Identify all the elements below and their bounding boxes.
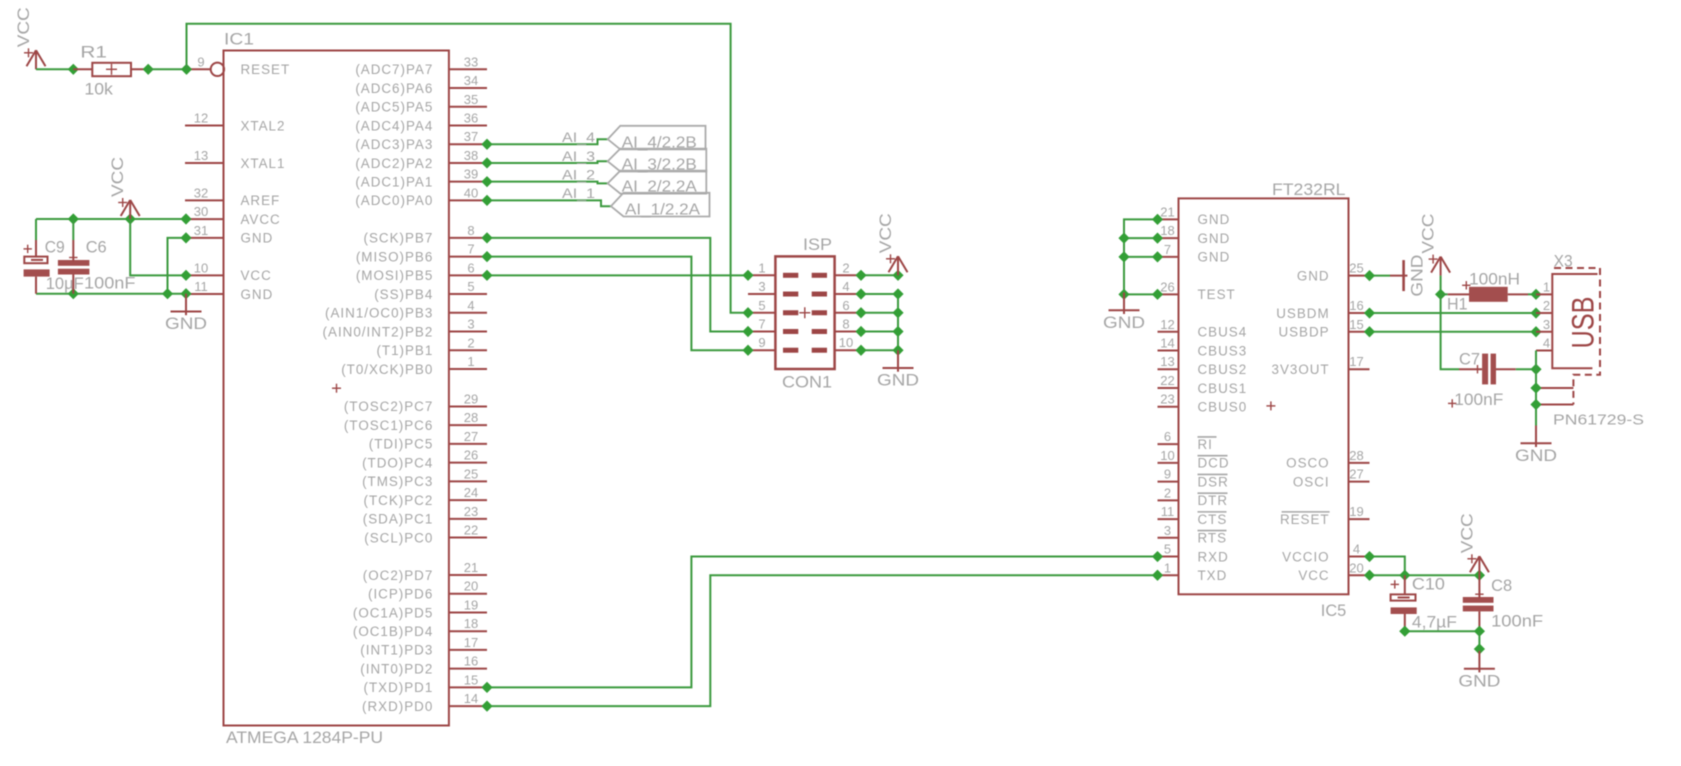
svg-text:10k: 10k	[84, 80, 113, 99]
junction	[1152, 233, 1163, 244]
svg-text:3: 3	[1543, 317, 1550, 332]
IC1 pin 12 XTAL2	[185, 110, 285, 133]
wire net AI_4	[487, 139, 608, 144]
svg-text:(TDO)PC4: (TDO)PC4	[362, 455, 433, 470]
IC1 pin 23 (SDA)PC1	[363, 504, 487, 527]
svg-text:26: 26	[1160, 279, 1174, 294]
ISP pin 6	[812, 298, 861, 313]
wire net AI_1	[487, 200, 611, 206]
svg-text:IC1: IC1	[224, 30, 254, 49]
wire C7 to gnd rail	[1516, 368, 1536, 370]
junction	[481, 176, 492, 187]
IC5 pin 17 3V3OUT	[1272, 354, 1370, 377]
svg-text:(TXD)PD1: (TXD)PD1	[364, 680, 434, 695]
connector CON1 ISP body	[775, 256, 834, 369]
svg-text:7: 7	[1164, 242, 1171, 257]
junction	[855, 288, 866, 299]
svg-text:(ADC6)PA6: (ADC6)PA6	[355, 81, 433, 96]
IC1 pin 36 (ADC4)PA4	[355, 110, 487, 133]
junction	[125, 213, 136, 224]
svg-text:(OC2)PD7: (OC2)PD7	[363, 568, 434, 583]
svg-text:16: 16	[464, 654, 478, 669]
svg-text:GND: GND	[1198, 231, 1231, 246]
svg-text:R1: R1	[80, 43, 107, 62]
svg-text:CBUS1: CBUS1	[1198, 381, 1248, 396]
svg-text:(SCL)PC0: (SCL)PC0	[364, 530, 433, 545]
junction node RESET	[181, 64, 192, 75]
IC5 pin 28 OSCO	[1286, 448, 1369, 471]
wire VCC rail down to C7	[1441, 294, 1459, 369]
IC1 pin 21 (OC2)PD7	[363, 560, 487, 583]
wire ISP6	[861, 312, 898, 314]
junction	[1364, 326, 1375, 337]
junction	[481, 682, 492, 693]
svg-text:H1: H1	[1447, 295, 1468, 314]
ISP pin 8	[812, 316, 861, 331]
svg-text:35: 35	[464, 92, 478, 107]
X3 pin 3	[1536, 317, 1552, 332]
IC5 pin 11 CTS	[1158, 504, 1228, 527]
svg-text:RXD: RXD	[1198, 549, 1229, 564]
IC5 pin 16 USBDM	[1276, 298, 1369, 321]
svg-text:2: 2	[1543, 298, 1550, 313]
svg-text:IC5: IC5	[1321, 601, 1347, 620]
svg-text:20: 20	[464, 579, 478, 594]
IC1 pin 26 (TDO)PC4	[362, 448, 487, 471]
svg-text:(ADC5)PA5: (ADC5)PA5	[355, 100, 433, 115]
IC1 pin 39 (ADC1)PA1	[355, 167, 487, 190]
IC5 pin 6 RI	[1158, 429, 1217, 452]
svg-text:6: 6	[1164, 429, 1171, 444]
X3 pin 1	[1536, 279, 1552, 294]
junction	[742, 345, 753, 356]
svg-text:(SDA)PC1: (SDA)PC1	[363, 512, 434, 527]
C9 polarity +	[24, 248, 32, 250]
wire IC5 gnd rail	[1124, 219, 1158, 292]
svg-text:(RXD)PD0: (RXD)PD0	[362, 699, 433, 714]
IC1 pin 2 (T1)PB1	[376, 335, 487, 358]
svg-text:VCC: VCC	[241, 268, 272, 283]
ground GND (USB)	[1515, 426, 1557, 466]
svg-text:DSR: DSR	[1198, 474, 1229, 489]
svg-text:19: 19	[1349, 504, 1363, 519]
svg-text:33: 33	[464, 54, 478, 69]
IC5 pin 21 GND	[1158, 204, 1231, 227]
svg-text:27: 27	[464, 429, 478, 444]
junction	[855, 270, 866, 281]
junction	[1530, 289, 1541, 300]
svg-text:5: 5	[758, 298, 765, 313]
svg-text:6: 6	[467, 260, 474, 275]
svg-text:VCC: VCC	[1458, 513, 1476, 553]
X3 shield pin S1	[1536, 387, 1573, 389]
svg-text:GND: GND	[1515, 447, 1557, 465]
svg-text:(OC1A)PD5: (OC1A)PD5	[353, 605, 433, 620]
svg-text:3V3OUT: 3V3OUT	[1272, 362, 1330, 377]
svg-text:VCC: VCC	[15, 7, 33, 47]
junction	[1435, 289, 1446, 300]
svg-text:(AIN1/OC0)PB3: (AIN1/OC0)PB3	[325, 306, 433, 321]
svg-text:(TOSC1)PC6: (TOSC1)PC6	[344, 418, 433, 433]
svg-text:DCD: DCD	[1198, 456, 1230, 471]
wire VCC to R1	[36, 68, 73, 70]
IC1 pin 14 (RXD)PD0	[362, 691, 487, 714]
junction	[855, 345, 866, 356]
IC5 pin 1 TXD	[1158, 560, 1228, 583]
junction	[481, 232, 492, 243]
wire RXD to PD1	[487, 557, 1158, 688]
wire gnd 18	[1124, 237, 1158, 239]
svg-text:100nF: 100nF	[84, 273, 136, 292]
X3 shield pin S2	[1536, 404, 1573, 406]
junction	[855, 326, 866, 337]
IC5 pin 13 CBUS2	[1158, 354, 1248, 377]
svg-text:C9: C9	[45, 238, 65, 257]
ISP pin 7	[748, 316, 798, 331]
X3 pin 4	[1536, 336, 1552, 351]
svg-text:(ADC2)PA2: (ADC2)PA2	[355, 156, 433, 171]
wire MOSI to ISP1	[487, 274, 748, 276]
net flag AI_2	[608, 171, 707, 194]
capacitor C6	[58, 219, 90, 294]
capacitor C7	[1459, 354, 1516, 385]
svg-text:1: 1	[1543, 279, 1550, 294]
junction	[892, 288, 903, 299]
svg-text:XTAL1: XTAL1	[241, 156, 286, 171]
svg-text:AI_4: AI_4	[562, 129, 595, 145]
svg-text:CTS: CTS	[1198, 512, 1228, 527]
IC1 pin 30 AVCC	[185, 204, 281, 227]
ground GND (ISP)	[877, 350, 919, 390]
svg-text:(TDI)PC5: (TDI)PC5	[369, 437, 434, 452]
svg-text:9: 9	[1164, 467, 1171, 482]
IC1 pin 25 (TMS)PC3	[362, 466, 487, 489]
svg-text:(OC1B)PD4: (OC1B)PD4	[353, 624, 433, 639]
svg-text:GND: GND	[241, 231, 274, 246]
svg-text:11: 11	[194, 279, 208, 294]
IC1 pin 20 (ICP)PD6	[368, 579, 487, 602]
svg-text:(ADC7)PA7: (ADC7)PA7	[355, 62, 433, 77]
svg-text:32: 32	[194, 185, 208, 200]
svg-text:TEST: TEST	[1198, 287, 1236, 302]
svg-text:1: 1	[1164, 560, 1171, 575]
wire C10-C8 gnd	[1405, 630, 1480, 632]
IC1 pin 18 (OC1B)PD4	[353, 616, 487, 639]
wire net AI_2	[487, 182, 608, 184]
junction	[162, 288, 173, 299]
ground GND (C8)	[1458, 651, 1500, 691]
svg-text:10: 10	[839, 335, 853, 350]
svg-text:40: 40	[464, 185, 478, 200]
IC1 pin 19 (OC1A)PD5	[353, 597, 487, 620]
IC1 pin 5 (SS)PB4	[374, 279, 487, 302]
ISP pin 3	[748, 279, 798, 294]
svg-text:(INT0)PD2: (INT0)PD2	[360, 661, 433, 676]
net flag AI_1	[611, 193, 710, 217]
IC5 pin 25 GND	[1297, 261, 1370, 284]
svg-text:(TMS)PC3: (TMS)PC3	[362, 474, 433, 489]
IC5 pin 14 CBUS3	[1158, 336, 1248, 359]
svg-text:4: 4	[842, 279, 849, 294]
IC1 pin 3 (AIN0/INT2)PB2	[323, 317, 487, 340]
svg-text:10µF: 10µF	[46, 274, 84, 293]
power VCC (AVCC)	[109, 157, 140, 219]
IC5 pin 10 DCD	[1158, 448, 1230, 471]
svg-text:(T1)PB1: (T1)PB1	[376, 343, 433, 358]
ISP pin 1	[748, 260, 798, 275]
junction	[1152, 251, 1163, 262]
X3 pin 2	[1536, 298, 1552, 313]
IC5 pin 26 TEST	[1158, 279, 1236, 302]
svg-text:XTAL2: XTAL2	[241, 118, 286, 133]
svg-text:16: 16	[1349, 298, 1363, 313]
IC1 pin 29 (TOSC2)PC7	[344, 391, 487, 414]
svg-text:20: 20	[1349, 560, 1363, 575]
IC1 pin 16 (INT0)PD2	[360, 654, 487, 677]
junction	[1152, 551, 1163, 562]
svg-text:OSCI: OSCI	[1293, 474, 1330, 489]
wire USB gnd vertical	[1535, 351, 1537, 426]
IC1 origin cross	[332, 387, 341, 389]
svg-text:37: 37	[464, 129, 478, 144]
capacitor C8	[1463, 575, 1494, 631]
svg-text:9: 9	[197, 54, 204, 69]
svg-text:(ADC1)PA1: (ADC1)PA1	[355, 174, 433, 189]
junction	[742, 307, 753, 318]
svg-text:11: 11	[1161, 504, 1175, 519]
svg-text:13: 13	[194, 148, 208, 163]
junction	[1530, 364, 1541, 375]
svg-text:USB: USB	[1565, 297, 1601, 349]
IC1 pin 4 (AIN1/OC0)PB3	[325, 298, 487, 321]
wire GND pin31 jog	[168, 238, 187, 294]
power VCC (reset pull-up)	[15, 7, 46, 69]
svg-text:(ADC4)PA4: (ADC4)PA4	[355, 118, 433, 133]
junction	[1474, 643, 1485, 654]
ISP origin cross	[799, 312, 810, 314]
IC1 pin 10 VCC	[185, 260, 272, 283]
junction	[892, 345, 903, 356]
svg-text:VCC: VCC	[1420, 214, 1438, 254]
wire GND bottom net	[36, 293, 186, 295]
junction	[481, 139, 492, 150]
svg-text:AI_3: AI_3	[562, 148, 595, 164]
svg-text:3: 3	[758, 279, 765, 294]
svg-text:19: 19	[464, 597, 478, 612]
junction	[742, 326, 753, 337]
svg-text:ISP: ISP	[803, 235, 832, 254]
svg-text:AI_2: AI_2	[562, 166, 595, 182]
IC5 pin 9 DSR	[1158, 467, 1229, 490]
C6 origin cross	[69, 257, 77, 259]
svg-text:C10: C10	[1412, 575, 1445, 594]
svg-text:10: 10	[1160, 448, 1174, 463]
svg-text:22: 22	[464, 523, 478, 538]
svg-text:TXD: TXD	[1198, 568, 1228, 583]
junction	[1399, 626, 1410, 637]
svg-text:24: 24	[464, 485, 478, 500]
svg-text:AI_1: AI_1	[562, 185, 595, 201]
svg-text:22: 22	[1160, 373, 1174, 388]
svg-text:CON1: CON1	[782, 373, 832, 392]
junction	[1364, 551, 1375, 562]
wire RESET net to ISP pin 5	[187, 24, 749, 313]
wire ISP2 to VCC	[861, 274, 898, 276]
svg-text:CBUS4: CBUS4	[1198, 325, 1248, 340]
svg-text:4: 4	[1543, 336, 1550, 351]
junction	[481, 701, 492, 712]
power VCC (ISP)	[877, 213, 908, 275]
svg-text:CBUS3: CBUS3	[1198, 343, 1248, 358]
svg-text:18: 18	[1160, 223, 1174, 238]
IC1 pin 13 XTAL1	[185, 148, 285, 171]
svg-text:4: 4	[1353, 542, 1360, 557]
junction	[68, 288, 79, 299]
IC1 pin 24 (TCK)PC2	[364, 485, 487, 508]
IC1 pin 7 (MISO)PB6	[356, 242, 487, 265]
svg-text:GND: GND	[1458, 672, 1500, 690]
junction	[143, 64, 154, 75]
junction	[855, 307, 866, 318]
svg-text:2: 2	[842, 260, 849, 275]
IC5 pin 4 VCCIO	[1282, 542, 1369, 565]
IC1 pin 32 AREF	[185, 185, 280, 208]
svg-text:17: 17	[464, 635, 478, 650]
IC1 pin 9 RESET	[187, 54, 291, 77]
junction	[1118, 233, 1129, 244]
ISP pin 4	[812, 279, 861, 294]
svg-text:VCC: VCC	[1298, 568, 1329, 583]
svg-text:(TOSC2)PC7: (TOSC2)PC7	[344, 399, 433, 414]
wire ISP8	[861, 330, 898, 332]
svg-text:GND: GND	[1198, 212, 1231, 227]
IC IC1 ATMEGA 1284P-PU body	[224, 51, 449, 726]
junction	[892, 307, 903, 318]
svg-text:8: 8	[842, 316, 849, 331]
junction	[481, 157, 492, 168]
svg-text:28: 28	[464, 410, 478, 425]
IC1 pin 15 (TXD)PD1	[364, 672, 487, 695]
IC5 pin 2 DTR	[1158, 485, 1229, 508]
ISP pin 10	[812, 335, 861, 350]
wire USBDP	[1370, 331, 1537, 333]
junction	[1118, 251, 1129, 262]
IC1 pin 35 (ADC5)PA5	[355, 92, 487, 115]
svg-text:12: 12	[1160, 317, 1174, 332]
IC1 pin 33 (ADC7)PA7	[355, 54, 487, 77]
junction	[742, 270, 753, 281]
svg-text:(SCK)PB7: (SCK)PB7	[364, 231, 434, 246]
svg-text:4,7µF: 4,7µF	[1412, 613, 1457, 632]
svg-text:USBDM: USBDM	[1276, 306, 1329, 321]
IC5 pin 22 CBUS1	[1158, 373, 1248, 396]
svg-text:AREF: AREF	[241, 193, 281, 208]
svg-text:GND: GND	[1409, 255, 1427, 297]
junction	[892, 326, 903, 337]
svg-text:9: 9	[758, 335, 765, 350]
wire AVCC net	[36, 218, 186, 220]
svg-text:18: 18	[464, 616, 478, 631]
IC5 pin 27 OSCI	[1293, 467, 1370, 490]
C8 origin cross	[1475, 593, 1483, 595]
svg-text:GND: GND	[877, 372, 919, 390]
svg-text:2: 2	[1164, 485, 1171, 500]
IC1 pin 11 GND	[185, 279, 273, 302]
C10 polarity +	[1391, 583, 1399, 585]
IC1 pin 27 (TDI)PC5	[369, 429, 487, 452]
svg-text:5: 5	[1164, 542, 1171, 557]
C7 origin cross	[1473, 368, 1481, 370]
wire to GND	[1478, 631, 1480, 651]
svg-text:23: 23	[1160, 392, 1174, 407]
wire VCC down	[1440, 276, 1442, 295]
svg-text:30: 30	[194, 204, 208, 219]
svg-text:25: 25	[464, 466, 478, 481]
svg-text:(INT1)PD3: (INT1)PD3	[360, 643, 433, 658]
svg-text:RI: RI	[1198, 437, 1213, 452]
net flag AI_4	[608, 126, 706, 150]
resistor R1	[73, 63, 148, 76]
IC1 pin 8 (SCK)PB7	[364, 223, 487, 246]
svg-text:DTR: DTR	[1198, 493, 1229, 508]
wire MISO to ISP9	[487, 257, 748, 351]
svg-text:C6: C6	[86, 238, 107, 257]
svg-text:(ADC0)PA0: (ADC0)PA0	[355, 193, 433, 208]
capacitor C10	[1391, 575, 1417, 631]
inductor H1	[1448, 287, 1528, 302]
C7 value cross	[1448, 402, 1456, 404]
svg-text:1: 1	[467, 354, 474, 369]
junction	[481, 270, 492, 281]
IC5 pin 5 RXD	[1158, 542, 1229, 565]
svg-text:(ADC3)PA3: (ADC3)PA3	[355, 137, 433, 152]
junction	[1530, 326, 1541, 337]
svg-text:17: 17	[1349, 354, 1363, 369]
svg-text:GND: GND	[165, 315, 207, 333]
IC1 pin 17 (INT1)PD3	[360, 635, 487, 658]
svg-text:100nH: 100nH	[1469, 270, 1520, 289]
IC1 pin 22 (SCL)PC0	[364, 523, 487, 546]
svg-text:100nF: 100nF	[1454, 390, 1503, 409]
wire SCK to ISP7	[487, 238, 748, 332]
IC5 pin 15 USBDP	[1278, 317, 1369, 340]
junction	[180, 288, 191, 299]
wire TEST	[1124, 293, 1158, 295]
IC1 pin 28 (TOSC1)PC6	[344, 410, 487, 433]
IC1 pin 31 GND	[185, 223, 273, 246]
svg-text:7: 7	[758, 316, 765, 331]
svg-text:2: 2	[467, 335, 474, 350]
svg-text:PN61729-S: PN61729-S	[1553, 411, 1644, 428]
junction	[180, 232, 191, 243]
svg-text:(AIN0/INT2)PB2: (AIN0/INT2)PB2	[323, 324, 434, 339]
svg-text:15: 15	[464, 672, 478, 687]
ground GND (pin 25, rotated)	[1390, 255, 1427, 297]
junction	[481, 195, 492, 206]
svg-text:26: 26	[464, 448, 478, 463]
svg-text:(TCK)PC2: (TCK)PC2	[364, 493, 434, 508]
wire VCC down to pin 10	[130, 219, 186, 275]
svg-text:USBDP: USBDP	[1278, 325, 1329, 340]
IC5 pin 18 GND	[1158, 223, 1231, 246]
junction	[1530, 307, 1541, 318]
junction	[1364, 270, 1375, 281]
wire ISP gnd rail	[861, 294, 898, 350]
svg-text:39: 39	[464, 167, 478, 182]
svg-text:VCCIO: VCCIO	[1282, 549, 1329, 564]
svg-text:GND: GND	[1297, 268, 1330, 283]
svg-text:AVCC: AVCC	[241, 212, 281, 227]
